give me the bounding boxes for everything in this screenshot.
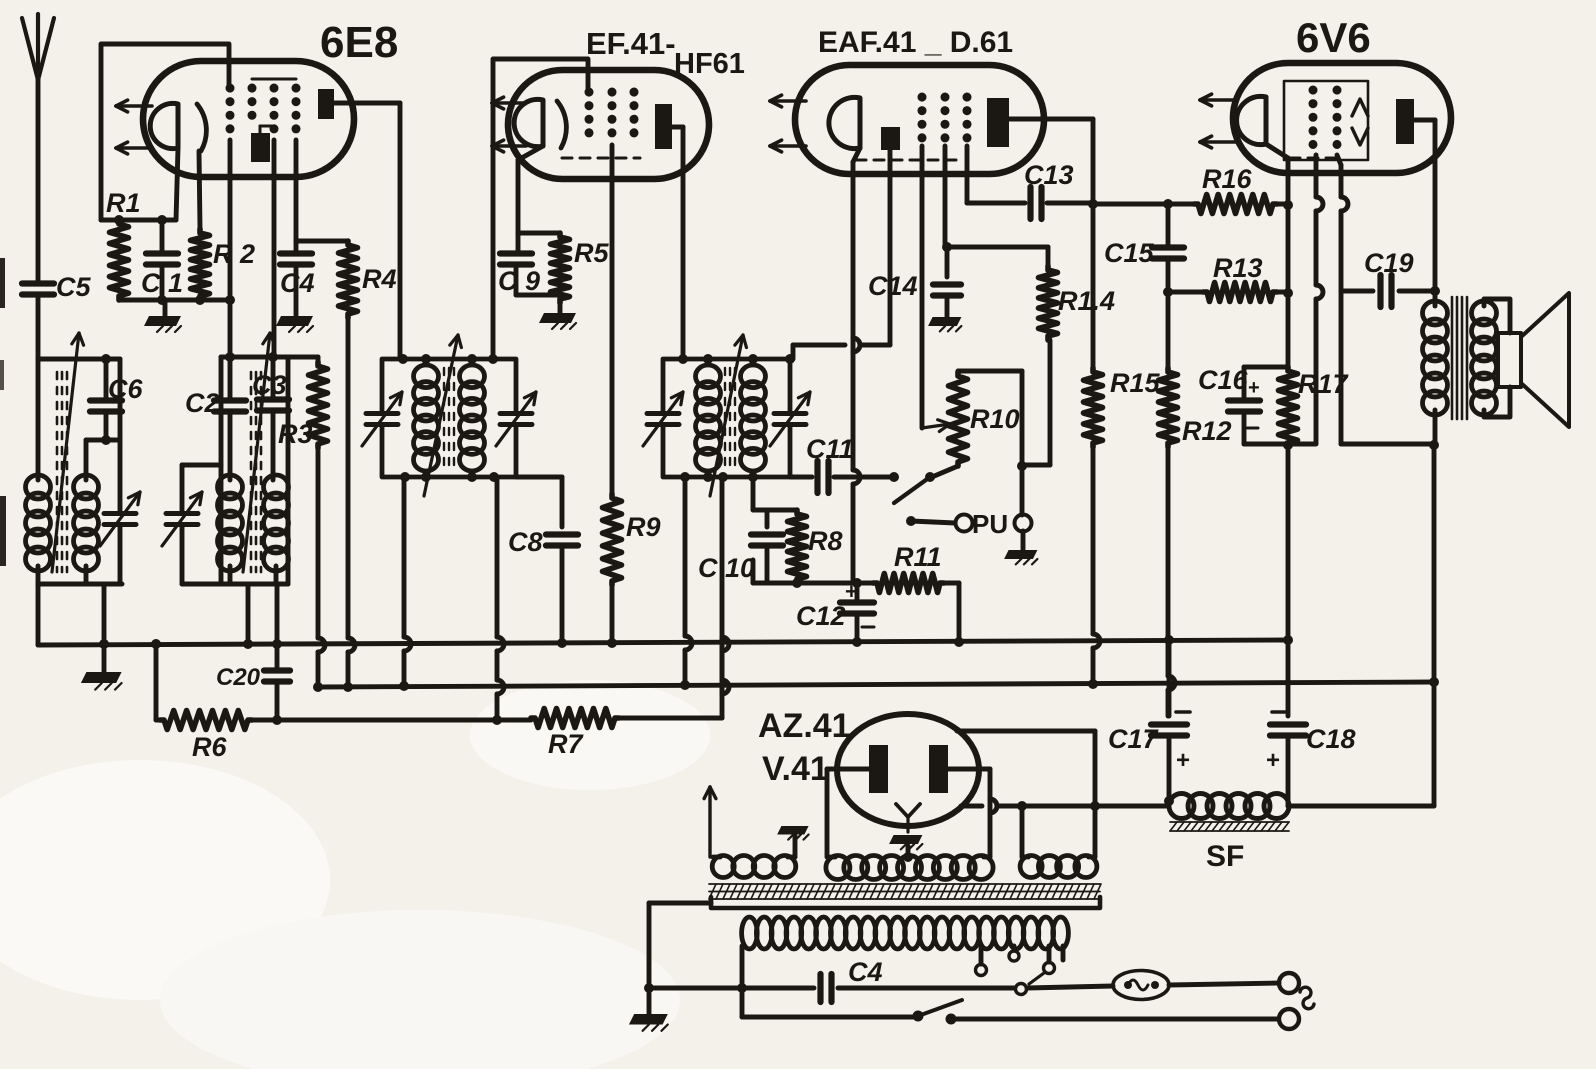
wire R16 feed bbox=[1093, 199, 1194, 209]
IF2 primary winding bbox=[696, 365, 721, 471]
wire detector bottom rail bbox=[753, 560, 873, 588]
wire PU line bbox=[906, 516, 955, 526]
svg-text:C12: C12 bbox=[796, 601, 846, 631]
choke SF core bar bbox=[1170, 822, 1289, 873]
tube 6V6 internal dashes bbox=[1290, 157, 1341, 160]
svg-text:R15: R15 bbox=[1110, 368, 1161, 398]
wire EAF cathode down bbox=[853, 148, 860, 583]
wire EF cathode down bbox=[518, 146, 543, 252]
wire PU right to pot bbox=[1017, 371, 1027, 515]
svg-text:C20: C20 bbox=[216, 664, 261, 691]
output transformer core bbox=[1452, 297, 1467, 419]
tube 6V6 grid column 1 bbox=[1309, 90, 1318, 148]
primary tap 1 bbox=[976, 946, 987, 976]
IF1 frame bbox=[382, 354, 516, 482]
ground under C14 bbox=[928, 317, 961, 331]
variable capacitor VC1 bbox=[100, 359, 140, 584]
wire R1.4 bottom bbox=[1022, 340, 1050, 465]
svg-text:C15: C15 bbox=[1104, 238, 1155, 268]
tube 6V6 beam box bbox=[1284, 81, 1368, 160]
wire A1 to bus corner bbox=[36, 584, 41, 645]
wire R6 left to top bus bbox=[151, 639, 161, 720]
mains cord squiggle bbox=[1300, 987, 1314, 1009]
wire R12 to top bus corner bbox=[1164, 447, 1175, 716]
primary right end bbox=[1061, 946, 1066, 960]
wire C19 left leg bbox=[1341, 291, 1439, 450]
capacitor C15 bbox=[1104, 204, 1184, 292]
variable capacitor VC4 bbox=[496, 392, 536, 446]
capacitor C4 bbox=[280, 241, 315, 316]
wire A2 to top bus bbox=[243, 584, 253, 649]
resistor R16 bbox=[1194, 164, 1277, 214]
resistor R3 bbox=[278, 357, 328, 449]
svg-text:C 9: C 9 bbox=[498, 266, 540, 296]
wire shield to ground bbox=[644, 903, 711, 993]
wire 6V6 cathode lead bbox=[1266, 144, 1288, 204]
resistor R13 bbox=[1203, 253, 1277, 302]
ground under PU bbox=[1004, 531, 1037, 564]
svg-text:C5: C5 bbox=[56, 272, 91, 302]
ground HV center tap bbox=[889, 835, 922, 857]
tube AZ.41 envelope bbox=[758, 707, 979, 826]
wire R9 to top bus bbox=[607, 585, 617, 648]
ground main left bbox=[81, 672, 122, 690]
svg-text:C14: C14 bbox=[868, 271, 918, 301]
speaker bbox=[1498, 293, 1569, 427]
power transformer primary winding bbox=[737, 917, 1068, 993]
coil A2 right winding bbox=[264, 475, 289, 584]
tube 6E8 anode (osc) bbox=[251, 133, 270, 162]
wire C14 line bbox=[942, 242, 1048, 252]
wire R15 to bottom bus bbox=[1088, 447, 1100, 689]
tube 6E8 grid-cap frame wire bbox=[101, 44, 229, 220]
wire 6V6 anode out bbox=[1414, 120, 1440, 296]
wire transformer to SF riser bbox=[1429, 444, 1439, 806]
tube EF.41 envelope bbox=[508, 26, 745, 179]
wire EF grid down to R9 bbox=[610, 145, 615, 494]
power transformer heater winding right bbox=[1020, 806, 1097, 878]
tube 6V6 grid column 2 bbox=[1333, 90, 1342, 148]
IF1 primary winding bbox=[414, 365, 439, 471]
wire 6E8 grid2 column bbox=[225, 140, 235, 359]
svg-text:EF.41-: EF.41- bbox=[586, 26, 676, 61]
resistor R8 bbox=[788, 510, 843, 583]
tube EF.41 grid column 1 bbox=[585, 92, 594, 145]
tube EF.41 grid column 3 bbox=[630, 92, 639, 145]
wire 6V6 g2 column down bbox=[1337, 155, 1348, 291]
power transformer shield bracket bbox=[711, 897, 1100, 908]
resistor R10 top rail bbox=[958, 369, 1022, 374]
wire selector to lamp bbox=[1027, 986, 1113, 988]
coil A2 bottom frame bbox=[221, 357, 288, 584]
wire A2 to C20 bbox=[272, 584, 282, 649]
coil A1 left frame bbox=[36, 359, 41, 480]
wire AZ left anode feed bbox=[827, 769, 869, 857]
tube EAF.41 anode bbox=[987, 98, 1009, 147]
power transformer heater winding left bbox=[712, 856, 796, 878]
svg-text:R9: R9 bbox=[626, 512, 661, 542]
capacitor C9 bbox=[498, 233, 560, 296]
svg-text:+: + bbox=[1248, 377, 1260, 399]
resistor R2 bbox=[191, 229, 256, 300]
tube EAF.41 diode plate bbox=[881, 127, 900, 150]
wire bottom rail bbox=[119, 295, 230, 305]
tube EAF.41 heater arrows bbox=[770, 95, 806, 152]
tube EAF.41 grid column 3 bbox=[963, 97, 972, 146]
svg-text:R5: R5 bbox=[574, 238, 609, 268]
svg-text:R11: R11 bbox=[894, 542, 942, 572]
tube 6E8 grid column 2 bbox=[248, 88, 257, 126]
ground under C1 bbox=[144, 300, 181, 332]
svg-text:SF: SF bbox=[1206, 840, 1244, 873]
tube 6V6 heater arrows bbox=[1200, 94, 1236, 148]
svg-text:C2: C2 bbox=[185, 388, 220, 418]
tube EF.41 grid frame wire bbox=[493, 59, 588, 359]
wire 6V6 cathode column bbox=[1286, 205, 1291, 367]
svg-text:C8: C8 bbox=[508, 527, 543, 557]
svg-text:R1.4: R1.4 bbox=[1058, 286, 1115, 316]
wire AZ filament top out bbox=[957, 731, 1100, 811]
primary tap 2 bbox=[1009, 946, 1019, 961]
power transformer HV winding bbox=[826, 852, 993, 880]
wire R11 right riser bbox=[944, 583, 964, 647]
tube 6E8 grid arc bbox=[197, 104, 206, 151]
coil A2 left frame bbox=[219, 357, 224, 584]
tube 6E8 envelope bbox=[143, 18, 398, 177]
svg-text:R12: R12 bbox=[1182, 416, 1232, 446]
wire 6E8 osc-grid col down bbox=[272, 140, 277, 357]
svg-text:R 2: R 2 bbox=[213, 239, 255, 269]
wire C16 R17 bottom rail bbox=[1244, 440, 1316, 450]
resistor R17 bbox=[1244, 367, 1350, 447]
variable capacitor VC3 bbox=[362, 392, 402, 446]
wire 6E8 grid down to R2 bbox=[199, 151, 200, 229]
ground mains left bbox=[629, 988, 668, 1031]
resistor R4 bbox=[339, 241, 397, 318]
tube EF.41 cathode bbox=[514, 99, 543, 146]
tube EF.41 heater arrows bbox=[492, 97, 526, 152]
IF2 core bbox=[725, 368, 735, 470]
wire mains lower bbox=[742, 988, 916, 1017]
R10 wiper arrow bbox=[922, 420, 950, 432]
wire EF anode to IF2 bbox=[672, 127, 683, 359]
svg-text:C17: C17 bbox=[1108, 724, 1160, 754]
wire R13 to 6V6 column bbox=[1277, 288, 1293, 298]
wire EAF grid2 down to R10 bbox=[920, 146, 925, 428]
wire R3 to bottom bus bbox=[313, 448, 325, 692]
capacitor C3 bbox=[252, 357, 289, 480]
svg-text:C4: C4 bbox=[848, 957, 883, 987]
output transformer secondary bbox=[1472, 299, 1511, 417]
wire EAF grid3 down to C14 line bbox=[943, 146, 948, 247]
svg-text:+: + bbox=[845, 579, 858, 604]
resistor R7 bbox=[531, 709, 619, 760]
svg-text:PU: PU bbox=[972, 509, 1008, 539]
svg-text:EAF.41 _ D.61: EAF.41 _ D.61 bbox=[818, 26, 1013, 59]
IF1 tuning arrow bbox=[424, 335, 461, 496]
wire R6 to R7 bbox=[252, 715, 531, 725]
wire IF1 drop to R7 line bbox=[497, 477, 504, 720]
tube AZ.41 anode right bbox=[929, 745, 948, 793]
svg-text:R10: R10 bbox=[970, 404, 1020, 434]
bottom bus wire bbox=[321, 682, 1434, 687]
wire lamp to plug bbox=[1169, 983, 1279, 985]
mains selector circle bbox=[1016, 984, 1027, 995]
output transformer primary bbox=[1423, 291, 1448, 444]
tube 6E8 grid column 1 bbox=[226, 88, 235, 140]
wire R7 right riser bbox=[619, 477, 729, 718]
mains switch bbox=[913, 1000, 963, 1025]
svg-text:C4: C4 bbox=[280, 268, 315, 298]
capacitor C19 bbox=[1341, 248, 1435, 307]
tube 6E8 grid column 3 bbox=[270, 88, 279, 140]
variable capacitor VC2 bbox=[162, 465, 221, 584]
coil assembly A1 frame top bbox=[38, 354, 120, 364]
svg-text:R1: R1 bbox=[106, 188, 141, 218]
wire R4 down to R6 line bbox=[343, 318, 355, 692]
svg-text:R4: R4 bbox=[362, 264, 397, 294]
svg-text:AZ.41: AZ.41 bbox=[758, 707, 851, 745]
resistor R11 bbox=[873, 542, 944, 593]
capacitor C5 bbox=[22, 272, 91, 302]
tube EAF.41 internal dashes bbox=[856, 159, 962, 162]
variable capacitor VC5 bbox=[643, 392, 683, 446]
variable capacitor VC6 bbox=[770, 392, 810, 446]
svg-text:C19: C19 bbox=[1364, 248, 1414, 278]
svg-text:C16: C16 bbox=[1198, 365, 1249, 395]
capacitor C16 bbox=[1198, 365, 1260, 444]
tube EAF.41 envelope bbox=[795, 26, 1044, 174]
svg-text:C18: C18 bbox=[1306, 724, 1356, 754]
svg-text:C11: C11 bbox=[806, 434, 854, 464]
wire EAF diode to IF2 secondary bbox=[785, 150, 890, 364]
tube EF.41 grid arc bbox=[557, 101, 566, 148]
wire SF to riser bbox=[1288, 804, 1434, 809]
tube 6V6 envelope bbox=[1233, 14, 1451, 173]
resistor R12 bbox=[1159, 292, 1232, 447]
svg-text:+: + bbox=[1266, 747, 1280, 774]
wire R16 to 6V6 column bbox=[1277, 200, 1293, 210]
svg-text:R16: R16 bbox=[1202, 164, 1253, 194]
top bus wire bbox=[38, 640, 1288, 645]
capacitor C6 bbox=[90, 359, 143, 440]
capacitor C8 bbox=[508, 527, 578, 648]
svg-text:C6: C6 bbox=[108, 374, 143, 404]
wire anode column down bbox=[1091, 204, 1096, 368]
ground under R5 bbox=[539, 303, 576, 329]
wire EAF grid1 down to C13 line bbox=[965, 146, 970, 203]
wire IF1 left drop to bottom bus bbox=[399, 477, 411, 691]
tube EF.41 anode bbox=[655, 104, 672, 149]
coil A1 left frame bottom lead bbox=[36, 566, 41, 586]
pilot arrow bbox=[704, 787, 716, 857]
tube EF.41 grid column 2 bbox=[608, 92, 617, 145]
capacitor C13 bbox=[967, 160, 1093, 219]
wire top bus to C17 bbox=[1167, 640, 1172, 716]
tube EAF.41 cathode bbox=[829, 97, 860, 148]
capacitor C17 bbox=[1108, 712, 1190, 794]
capacitor C11 bbox=[790, 434, 894, 493]
svg-text:C13: C13 bbox=[1024, 160, 1074, 190]
coil A2 tuning arrow bbox=[243, 333, 275, 572]
wire screen rail bbox=[296, 140, 348, 241]
svg-text:R8: R8 bbox=[808, 526, 843, 556]
capacitor C14 bbox=[868, 247, 961, 317]
PU jack right bbox=[1015, 515, 1032, 532]
wire 6E8 anode to IF transformer 1 bbox=[334, 103, 400, 359]
wire IF1 frame right extension to C8 bbox=[516, 477, 562, 527]
wire IF2 to C10 R8 bbox=[753, 477, 797, 510]
power transformer core bbox=[709, 884, 1101, 899]
IF1 core bbox=[444, 368, 454, 470]
switch detector bbox=[889, 472, 935, 503]
tube EAF.41 grid column 1 bbox=[918, 97, 927, 146]
resistor R6 bbox=[156, 711, 252, 763]
wire antenna to coil frame bbox=[36, 296, 41, 359]
tube EAF.41 grid column 2 bbox=[941, 97, 950, 146]
coil assembly A2 frame top bbox=[221, 352, 318, 362]
resistor R15 bbox=[1084, 368, 1161, 447]
coil A1 core bbox=[57, 372, 67, 572]
mains plug bottom bbox=[1279, 1009, 1299, 1029]
primary tap 3 bbox=[1029, 946, 1055, 984]
PU jack left bbox=[956, 509, 1009, 539]
dial lamp bbox=[1113, 971, 1169, 1000]
tube 6E8 grid column 4 bbox=[292, 88, 301, 140]
tube 6E8 anode (top) bbox=[318, 89, 334, 119]
svg-text:HF61: HF61 bbox=[674, 48, 745, 80]
coil A2 core bbox=[251, 372, 261, 572]
svg-text:V.41: V.41 bbox=[762, 750, 829, 788]
wire 6E8 screen pin down bbox=[0, 0, 1, 1]
coil A1 tuning arrow bbox=[52, 333, 84, 572]
ground heater left winding bbox=[777, 826, 808, 857]
capacitor C18 bbox=[1266, 640, 1356, 794]
wire 6E8 cathode down bbox=[176, 148, 178, 220]
IF1 secondary winding bbox=[460, 365, 485, 471]
capacitor C10 bbox=[698, 510, 783, 583]
wire cathode rail bbox=[101, 215, 176, 225]
coil A1 bottom frame bbox=[38, 582, 122, 587]
svg-text:R13: R13 bbox=[1213, 253, 1263, 283]
tube 6E8 cathode bbox=[150, 103, 178, 148]
capacitor C1 bbox=[141, 220, 183, 300]
svg-text:C 1: C 1 bbox=[141, 268, 183, 298]
tube 6V6 beam plates bbox=[1352, 99, 1368, 145]
svg-text:R7: R7 bbox=[548, 729, 584, 759]
svg-text:+: + bbox=[1176, 747, 1190, 774]
choke SF bbox=[1169, 794, 1289, 819]
resistor R5 bbox=[551, 233, 610, 303]
capacitor C12 bbox=[796, 579, 874, 647]
wire EAF anode right bbox=[1009, 119, 1098, 209]
svg-text:C 10: C 10 bbox=[698, 553, 755, 583]
svg-text:6V6: 6V6 bbox=[1296, 14, 1371, 61]
wire 6V6 grid column down bbox=[1316, 155, 1323, 443]
resistor R10 bbox=[932, 372, 1020, 477]
wire switch to plug bbox=[951, 1017, 1278, 1022]
tube 6E8 heater arrows bbox=[116, 100, 152, 154]
capacitor C2 bbox=[185, 357, 246, 480]
IF2 frame bbox=[663, 354, 790, 482]
tube 6V6 anode bbox=[1396, 99, 1414, 144]
wire C9-R5 bottom bbox=[516, 293, 560, 298]
IF2 secondary winding bbox=[741, 365, 766, 471]
coil A2 left winding bbox=[218, 475, 243, 584]
coil A1 secondary winding bbox=[74, 440, 99, 584]
wire AZ filament bottom out bbox=[961, 796, 1174, 813]
wire R17 to top bus corner bbox=[1283, 447, 1293, 645]
ground under C4 bbox=[276, 316, 313, 332]
tube 6E8 internal links bbox=[252, 79, 296, 133]
svg-text:R6: R6 bbox=[192, 732, 227, 762]
wire IF2 left drop to bottom bus bbox=[680, 477, 692, 690]
tube EF.41 internal dashes bbox=[562, 157, 640, 160]
svg-text:R3: R3 bbox=[278, 419, 313, 449]
tube 6V6 cathode bbox=[1237, 96, 1266, 144]
tube AZ.41 filament bbox=[896, 804, 920, 832]
coil A1 primary winding bbox=[26, 475, 51, 571]
antenna bbox=[22, 14, 54, 282]
coil A1 inner rail bbox=[86, 435, 120, 445]
tube AZ.41 anode left bbox=[869, 745, 888, 793]
resistor R1.4 bbox=[1039, 247, 1116, 340]
wire R13 line bbox=[1163, 287, 1203, 297]
capacitor C4 mains bbox=[649, 957, 1014, 1002]
resistor R1 bbox=[106, 188, 141, 300]
capacitor C20 bbox=[216, 645, 290, 720]
IF2 tuning arrow bbox=[710, 335, 746, 496]
svg-text:6E8: 6E8 bbox=[320, 18, 398, 67]
wire AZ right anode feed bbox=[948, 769, 990, 857]
resistor R9 bbox=[603, 494, 661, 585]
wire A1 to ground bbox=[99, 584, 109, 672]
mains plug top bbox=[1279, 973, 1299, 993]
